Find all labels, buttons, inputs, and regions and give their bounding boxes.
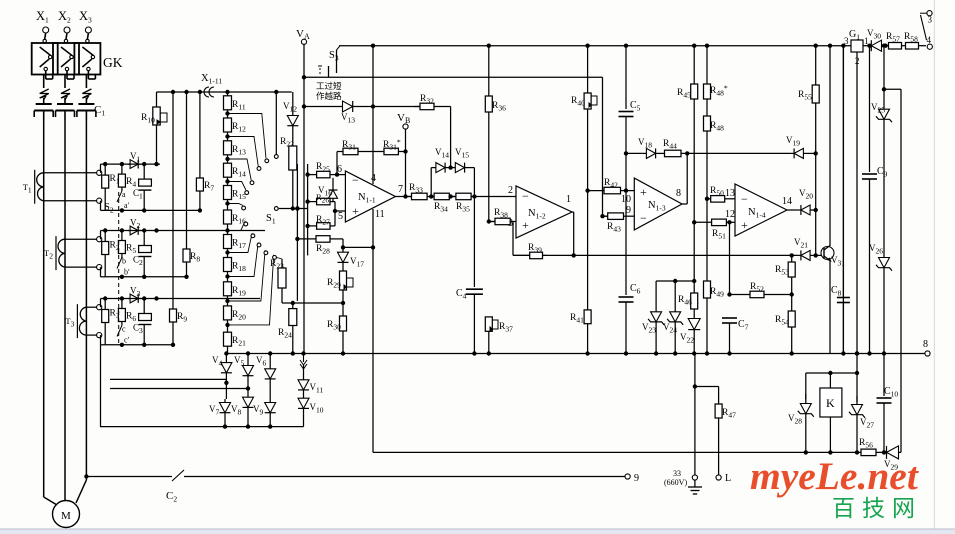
wire C4 column xyxy=(473,197,475,288)
diode V30 xyxy=(863,45,867,47)
contact C2 blade xyxy=(172,470,184,481)
resistor ladder chain xyxy=(227,92,229,354)
svg-text:R48: R48 xyxy=(710,121,724,133)
output wire of N1-2 xyxy=(572,211,574,213)
svg-text:R12: R12 xyxy=(232,122,246,134)
svg-text:R11: R11 xyxy=(232,100,246,112)
resistor R18 xyxy=(224,258,232,272)
top supply bus xyxy=(339,45,851,47)
wire C2 line to terminal 9 xyxy=(84,474,88,478)
channel 2 bottom wire xyxy=(100,267,102,277)
wire R42 to N1-3 xyxy=(626,190,634,192)
terminal 4 xyxy=(927,44,932,49)
zener V25 xyxy=(879,109,890,119)
svg-text:R6: R6 xyxy=(126,312,136,324)
phase wire 3 to motor xyxy=(85,120,87,480)
svg-text:作越路: 作越路 xyxy=(316,91,342,101)
arrester symbols xyxy=(40,89,49,98)
wire aux rails xyxy=(296,164,298,301)
transformer T3 xyxy=(79,307,86,335)
pin 11 wire down xyxy=(372,209,374,452)
terminal 3 with switch xyxy=(927,11,932,16)
diode V9 xyxy=(269,395,271,399)
resistor R42 xyxy=(588,190,604,192)
svg-text:R36: R36 xyxy=(492,101,506,113)
svg-text:R31: R31 xyxy=(342,140,356,152)
svg-text:R45: R45 xyxy=(677,88,691,100)
channel 1 top wire xyxy=(100,164,102,173)
capacitor C1 xyxy=(143,164,145,179)
svg-text:M: M xyxy=(61,510,71,522)
diode V8 xyxy=(243,397,254,407)
switch S2 contact c xyxy=(117,326,122,337)
terminal 8 xyxy=(925,351,930,356)
diode V16 xyxy=(332,178,334,186)
svg-text:+: + xyxy=(522,218,529,232)
resistor R36 column xyxy=(488,46,490,96)
op-amp N1-1 xyxy=(345,171,395,222)
pin 4 supply wire xyxy=(372,46,374,184)
svg-text:L: L xyxy=(725,473,731,484)
diode V15 xyxy=(455,163,464,173)
switch S3 xyxy=(318,65,322,67)
resistor R41 xyxy=(587,191,589,310)
svg-text:R5: R5 xyxy=(126,244,136,256)
svg-text:−: − xyxy=(640,211,647,225)
svg-text:−: − xyxy=(352,173,359,187)
wire return b xyxy=(110,378,226,380)
switch S2 contact b xyxy=(117,258,122,269)
resistor R58 xyxy=(904,45,907,47)
resistor R13 xyxy=(224,141,232,155)
svg-text:R41: R41 xyxy=(570,313,584,325)
channel 3 input terminals xyxy=(86,306,96,308)
zener V24 xyxy=(670,312,681,322)
diode V12 xyxy=(292,92,294,112)
terminal VB xyxy=(403,124,408,129)
switch S2 contact a xyxy=(117,191,122,202)
diode V21 xyxy=(801,250,810,260)
capacitor C3 xyxy=(143,299,145,314)
resistor R52 xyxy=(729,222,731,294)
main bottom bus xyxy=(226,353,925,355)
channel 3 top wire extension xyxy=(160,298,260,300)
svg-text:14: 14 xyxy=(782,196,792,207)
channel 1 input terminals xyxy=(44,172,97,174)
transformer T1 xyxy=(37,173,44,201)
channel 2 bottom wire extension xyxy=(105,276,186,278)
second bus from S3 xyxy=(304,76,603,78)
wire return c xyxy=(110,388,248,390)
wire VA rail xyxy=(303,44,305,353)
svg-text:R54: R54 xyxy=(775,315,789,327)
resistor R48 xyxy=(706,131,708,199)
svg-text:R38: R38 xyxy=(494,208,508,220)
svg-text:11: 11 xyxy=(375,209,385,220)
svg-text:K: K xyxy=(826,396,835,410)
wire V25 branch to right xyxy=(884,88,901,90)
resistor R57 xyxy=(886,45,889,47)
resistor R25 xyxy=(308,174,317,176)
svg-text:R50: R50 xyxy=(710,186,724,198)
feedback R39 xyxy=(512,222,514,256)
footer bar xyxy=(0,530,955,534)
diode V2 xyxy=(130,226,138,235)
diode V14 xyxy=(430,168,432,197)
svg-text:R51: R51 xyxy=(712,229,726,241)
svg-text:7: 7 xyxy=(398,184,403,195)
resistor R55 xyxy=(815,46,817,85)
resistor R54 xyxy=(791,295,793,312)
svg-text:R28: R28 xyxy=(316,244,330,256)
svg-text:R47: R47 xyxy=(722,408,736,420)
svg-text:R30: R30 xyxy=(327,320,341,332)
feedback R31a xyxy=(381,151,384,153)
diode V19 xyxy=(794,148,803,158)
svg-text:R57: R57 xyxy=(886,32,900,44)
resistor R28 xyxy=(297,238,316,240)
resistor R36 xyxy=(488,112,490,222)
resistor R20 xyxy=(224,306,232,320)
wire R32 to diode pair xyxy=(450,107,452,168)
terminal X1 xyxy=(43,27,49,33)
diode V27 xyxy=(852,405,863,415)
capacitor C1 series gaps xyxy=(36,103,52,105)
resistor R17 xyxy=(224,235,232,249)
svg-text:R25: R25 xyxy=(316,162,330,174)
svg-text:R29: R29 xyxy=(327,278,341,290)
svg-text:13: 13 xyxy=(725,188,735,199)
feedback row V18 R44 xyxy=(626,152,643,154)
svg-text:c: c xyxy=(122,325,126,334)
output wire of N1-1 xyxy=(395,196,411,198)
op-amp N1-4 xyxy=(735,184,787,236)
svg-text:R55: R55 xyxy=(798,90,812,102)
resistor R8 xyxy=(183,249,190,262)
resistor R56 xyxy=(860,451,862,453)
diode V7 xyxy=(225,383,227,399)
svg-text:R23: R23 xyxy=(270,259,284,271)
terminal L xyxy=(716,475,721,480)
svg-text:R53: R53 xyxy=(775,265,789,277)
wire relay top xyxy=(806,372,857,374)
diode V5 xyxy=(243,366,254,376)
svg-text:R44: R44 xyxy=(663,139,677,151)
output wire of N1-4 xyxy=(787,209,798,211)
svg-text:R58: R58 xyxy=(904,32,918,44)
svg-text:R22: R22 xyxy=(280,137,294,149)
svg-text:R10: R10 xyxy=(141,113,155,125)
transistor V31 xyxy=(821,247,834,260)
wire from T3 common xyxy=(100,345,102,427)
resistor R21 xyxy=(224,332,232,346)
channel 2 top wire xyxy=(100,231,102,240)
resistor R10 potentiometer xyxy=(156,92,158,107)
svg-text:8: 8 xyxy=(923,339,928,350)
resistor R48a xyxy=(706,46,708,84)
resistor R11 xyxy=(224,96,232,110)
output wire of N1-3 xyxy=(682,203,687,205)
resistor R45 xyxy=(693,46,695,84)
resistor R37 potentiometer xyxy=(488,331,490,353)
channel 3 bottom wire extension xyxy=(105,344,173,346)
relay K xyxy=(829,373,831,388)
wire V31 collector xyxy=(829,46,831,246)
diode V1 xyxy=(130,160,138,169)
diode V6 xyxy=(265,369,276,379)
svg-text:+: + xyxy=(352,204,359,218)
terminal X2 xyxy=(64,27,70,33)
wire pin11 rail bottom xyxy=(373,451,861,453)
contactor GK main contacts xyxy=(45,33,46,39)
resistor R40 potentiometer xyxy=(587,46,589,93)
diode V22 xyxy=(688,319,700,330)
resistor R46 and V22 xyxy=(693,222,695,281)
wire R9 column xyxy=(172,92,174,345)
wire ground branch xyxy=(694,354,696,475)
svg-text:12: 12 xyxy=(725,209,735,220)
svg-text:−: − xyxy=(741,192,748,206)
svg-text:+: + xyxy=(741,218,748,232)
terminal X3 xyxy=(85,27,91,33)
resistor R53 xyxy=(791,255,793,262)
svg-text:R56: R56 xyxy=(859,438,873,450)
diode V4 xyxy=(221,363,232,373)
resistor R38 xyxy=(489,221,495,223)
svg-text:R15: R15 xyxy=(232,190,246,202)
svg-text:R42: R42 xyxy=(604,178,618,190)
svg-text:R21: R21 xyxy=(232,336,246,348)
diode V29 xyxy=(887,446,899,459)
capacitor C7 xyxy=(722,317,737,319)
svg-text:8: 8 xyxy=(676,188,681,199)
wire S1 column xyxy=(275,92,277,154)
svg-text:33: 33 xyxy=(673,469,681,478)
svg-text:R39: R39 xyxy=(528,243,542,255)
svg-text:R49: R49 xyxy=(710,287,724,299)
svg-text:R43: R43 xyxy=(607,222,621,234)
svg-text:R33: R33 xyxy=(409,183,423,195)
resistor R4 xyxy=(121,164,123,174)
terminal break X1-11 xyxy=(204,87,209,97)
resistor R49 xyxy=(706,199,708,281)
svg-text:R34: R34 xyxy=(434,202,448,214)
wire right rails xyxy=(842,46,844,354)
svg-text:(660V): (660V) xyxy=(664,478,687,487)
resistor R24 xyxy=(292,303,294,309)
resistor R9 xyxy=(170,309,177,322)
svg-text:R9: R9 xyxy=(177,312,187,324)
resistor R35 xyxy=(451,196,456,198)
resistor R30 xyxy=(342,305,344,316)
svg-text:R18: R18 xyxy=(232,262,246,274)
phase wire 2 to motor xyxy=(64,120,66,501)
diode V20 xyxy=(801,205,810,215)
motor M xyxy=(53,501,80,528)
resistor R12 xyxy=(224,118,232,132)
resistor R7 xyxy=(196,178,203,191)
diode rail xyxy=(224,417,226,427)
svg-text:R24: R24 xyxy=(278,328,292,340)
wire R8 column xyxy=(186,92,188,277)
svg-text:b′: b′ xyxy=(124,268,130,277)
resistor R43 xyxy=(603,215,608,217)
svg-text:工过短: 工过短 xyxy=(316,81,342,91)
svg-text:R4: R4 xyxy=(126,177,136,189)
resistor R29 potentiometer xyxy=(342,268,344,271)
switch S1 wiper xyxy=(274,207,278,211)
capacitor C5 xyxy=(619,111,634,113)
svg-text:3: 3 xyxy=(928,15,933,25)
resistor R2 xyxy=(104,231,106,242)
resistor R22 xyxy=(292,130,294,146)
resistor R32 xyxy=(356,106,420,108)
svg-text:c′: c′ xyxy=(124,336,130,345)
svg-text:R37: R37 xyxy=(499,322,513,334)
diode V13 xyxy=(304,106,340,108)
svg-text:R40: R40 xyxy=(571,96,585,108)
channel 2 top wire extension xyxy=(160,230,265,232)
zener V26 xyxy=(879,258,890,268)
bus wire to ladder xyxy=(157,91,292,93)
channel 1 bottom wire extension xyxy=(105,209,200,211)
svg-text:R13: R13 xyxy=(232,145,246,157)
svg-text:a: a xyxy=(122,190,126,199)
resistor R19 xyxy=(224,282,232,296)
capacitor C6 xyxy=(625,191,627,295)
wire lower node xyxy=(282,302,343,304)
svg-text:2: 2 xyxy=(508,185,513,196)
wire to pin 5 xyxy=(334,202,336,226)
resistor R26 xyxy=(308,201,317,203)
svg-text:−: − xyxy=(522,189,529,203)
resistor R6 xyxy=(121,299,123,309)
terminal 9 xyxy=(625,474,630,479)
diode V28 xyxy=(800,404,811,414)
svg-text:R32: R32 xyxy=(420,94,434,106)
wire to N1-2 inverting input xyxy=(474,196,516,198)
svg-text:R8: R8 xyxy=(190,252,200,264)
diode V17 xyxy=(341,245,345,249)
svg-text:R46: R46 xyxy=(678,295,692,307)
wire feedback to V19 xyxy=(687,152,791,154)
diode V18 xyxy=(646,148,655,158)
svg-text:+: + xyxy=(640,185,647,199)
selector contacts xyxy=(228,114,267,159)
wire G1 pin2 xyxy=(856,52,858,402)
zener V23 xyxy=(656,280,694,282)
feedback R31 xyxy=(336,152,338,175)
resistor R16 xyxy=(224,210,232,224)
capacitor C2 xyxy=(143,231,145,246)
phase wire 1 to motor xyxy=(43,120,45,497)
svg-text:9: 9 xyxy=(626,205,631,216)
capacitor C10 xyxy=(883,354,885,397)
channel 2 input terminals xyxy=(65,238,97,240)
resistor R5 xyxy=(121,231,123,241)
svg-text:R52: R52 xyxy=(750,282,764,294)
capacitor C5 column xyxy=(625,46,627,109)
resistor R50 xyxy=(707,198,711,200)
svg-text:9: 9 xyxy=(634,473,639,484)
svg-text:myeLe.net: myeLe.net xyxy=(750,454,919,498)
svg-text:a′: a′ xyxy=(124,201,130,210)
svg-text:R7: R7 xyxy=(204,181,214,193)
svg-text:1: 1 xyxy=(566,194,571,205)
resistor R15 xyxy=(224,186,232,200)
wire S1 to amplifier xyxy=(279,208,308,210)
transformer T2 xyxy=(58,239,65,267)
resistor R23 xyxy=(281,259,283,268)
svg-text:R20: R20 xyxy=(232,310,246,322)
resistor R27 xyxy=(308,225,317,227)
long wire to V21 xyxy=(543,254,799,256)
zener V25 column xyxy=(883,48,885,89)
switch S2 dashed actuator xyxy=(118,192,120,345)
svg-text:R19: R19 xyxy=(232,286,246,298)
gate block G1 xyxy=(851,40,863,52)
op-amp N1-2 xyxy=(516,186,572,238)
diode V3 xyxy=(130,294,138,303)
svg-text:R14: R14 xyxy=(232,167,246,179)
channel 3 bottom wire xyxy=(100,335,102,345)
resistor R47 xyxy=(718,387,720,405)
wire R7 column xyxy=(199,92,201,210)
diode V11 xyxy=(303,354,305,363)
svg-text:4: 4 xyxy=(927,35,932,45)
resistor R33 xyxy=(406,196,412,198)
resistor R14 xyxy=(224,163,232,177)
op-amp N1-3 xyxy=(634,178,682,230)
resistor R3 xyxy=(104,299,106,310)
svg-text:R17: R17 xyxy=(232,239,246,251)
capacitor C9 column xyxy=(869,46,871,172)
svg-text:b: b xyxy=(122,257,126,266)
svg-text:百技网: 百技网 xyxy=(832,495,922,521)
resistor R44 xyxy=(660,152,665,154)
diode V10 xyxy=(298,398,309,408)
resistor R51 xyxy=(694,221,711,223)
wire V31 emitter xyxy=(829,261,831,354)
svg-text:R35: R35 xyxy=(456,202,470,214)
svg-text:5: 5 xyxy=(338,211,343,222)
svg-text:GK: GK xyxy=(103,55,123,70)
resistor R1 xyxy=(104,164,106,175)
terminal VA xyxy=(301,39,306,44)
capacitor C9 xyxy=(862,173,877,175)
capacitor C4 xyxy=(466,288,483,290)
ground terminal 33 660V xyxy=(692,475,697,480)
channel 1 bottom wire xyxy=(100,201,102,211)
channel 3 top wire xyxy=(100,299,102,308)
resistor R34 xyxy=(431,196,434,198)
page edge line xyxy=(933,0,935,529)
svg-text:R27: R27 xyxy=(316,215,330,227)
